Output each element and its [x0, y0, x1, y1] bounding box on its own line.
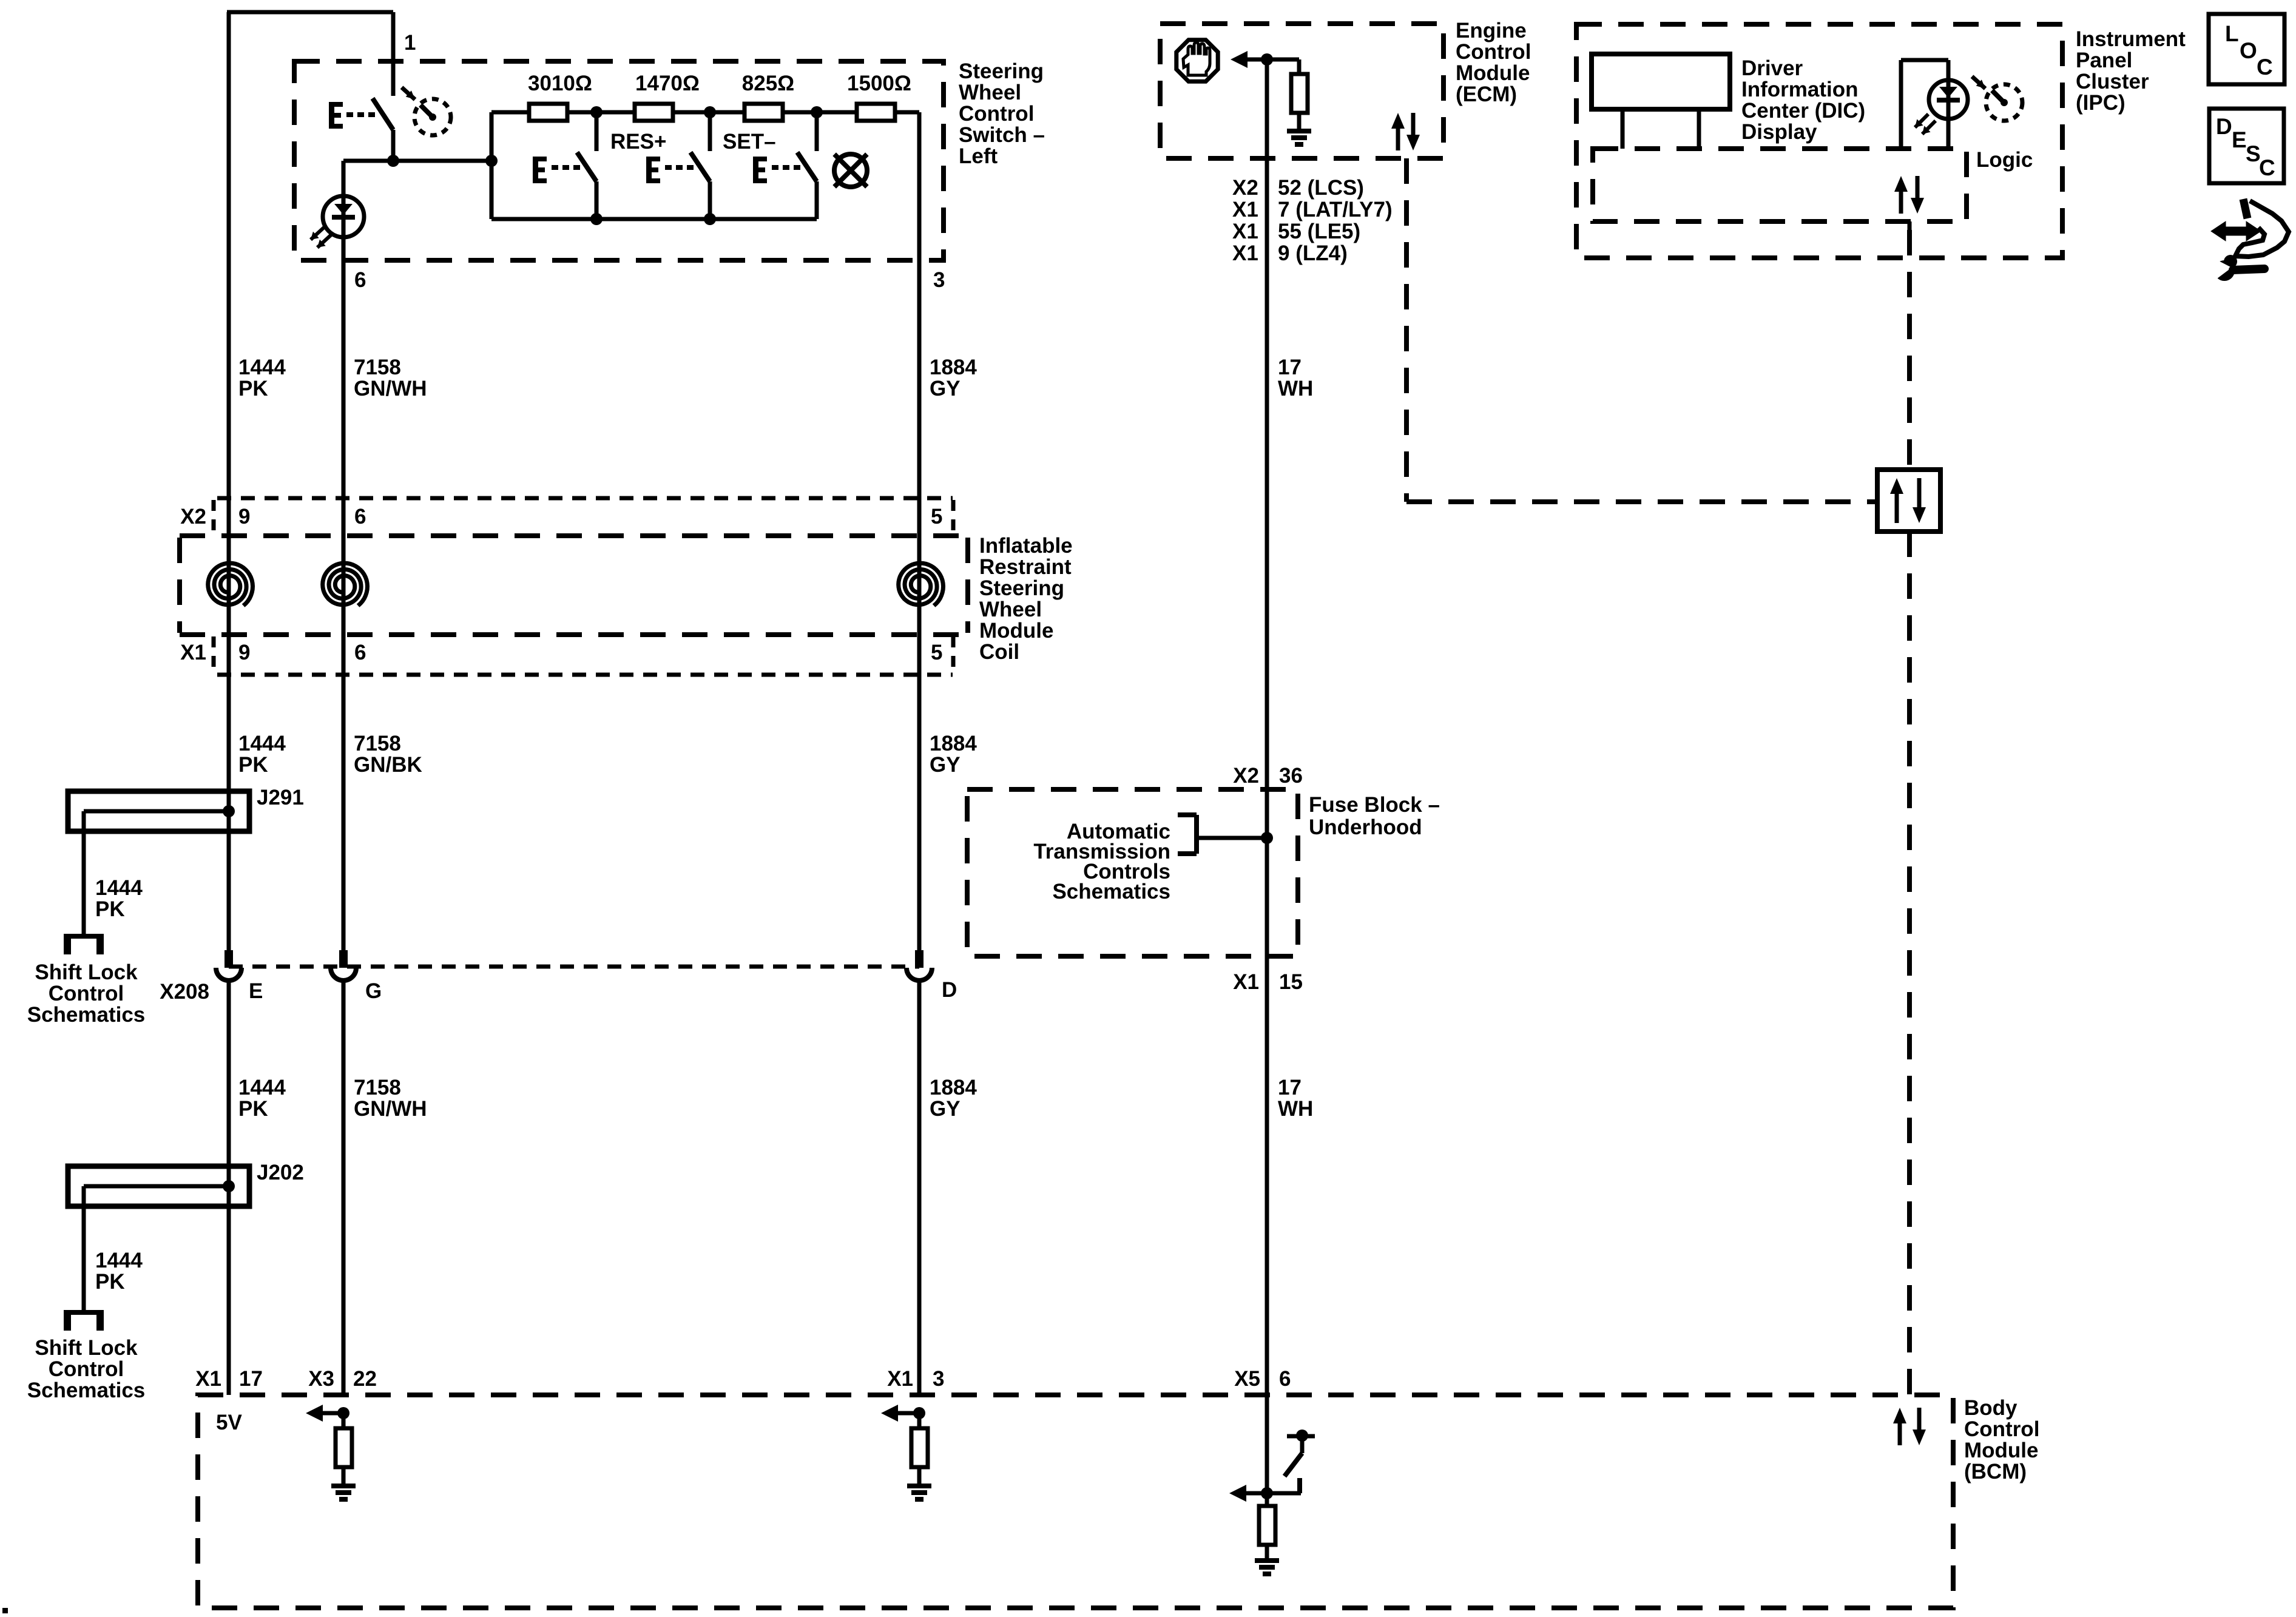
svg-text:Control: Control [959, 102, 1034, 126]
svg-text:Switch –: Switch – [959, 123, 1045, 147]
svg-text:22: 22 [353, 1367, 377, 1391]
svg-text:55 (LE5): 55 (LE5) [1278, 220, 1360, 243]
svg-text:6: 6 [354, 505, 366, 528]
svg-text:Control: Control [1456, 40, 1531, 64]
svg-text:Wheel: Wheel [959, 81, 1021, 104]
svg-text:7 (LAT/LY7): 7 (LAT/LY7) [1278, 198, 1393, 221]
svg-text:C: C [2259, 155, 2275, 180]
svg-text:Control: Control [49, 982, 124, 1005]
svg-text:7158: 7158 [354, 732, 401, 755]
svg-text:PK: PK [95, 897, 125, 921]
svg-text:5: 5 [931, 505, 942, 528]
svg-text:Left: Left [959, 144, 998, 168]
svg-text:Module: Module [979, 619, 1053, 643]
svg-text:Wheel: Wheel [979, 598, 1042, 621]
svg-text:PK: PK [95, 1270, 125, 1294]
svg-text:WH: WH [1278, 1097, 1313, 1121]
svg-text:D: D [942, 978, 957, 1002]
svg-text:1500Ω: 1500Ω [847, 72, 911, 95]
svg-text:17: 17 [1278, 356, 1302, 379]
svg-text:Center (DIC): Center (DIC) [1741, 99, 1865, 123]
svg-text:Inflatable: Inflatable [979, 534, 1073, 558]
svg-text:GN/WH: GN/WH [354, 377, 427, 400]
svg-text:Control: Control [1964, 1417, 2039, 1441]
svg-text:17: 17 [239, 1367, 263, 1391]
svg-text:RES+: RES+ [610, 130, 666, 154]
svg-text:X1: X1 [195, 1367, 221, 1391]
svg-text:Shift Lock: Shift Lock [35, 1336, 138, 1360]
svg-text:Restraint: Restraint [979, 555, 1072, 579]
svg-text:Fuse Block –: Fuse Block – [1309, 793, 1440, 817]
svg-text:1884: 1884 [930, 732, 977, 755]
svg-text:X1: X1 [1232, 241, 1258, 265]
svg-text:Control: Control [49, 1357, 124, 1381]
svg-text:3010Ω: 3010Ω [528, 72, 592, 95]
svg-text:5V: 5V [216, 1411, 242, 1434]
svg-text:1444: 1444 [95, 1249, 143, 1272]
svg-text:7158: 7158 [354, 356, 401, 379]
svg-text:6: 6 [354, 268, 366, 292]
svg-text:(ECM): (ECM) [1456, 83, 1517, 106]
svg-text:X1: X1 [180, 641, 206, 664]
svg-text:15: 15 [1279, 970, 1303, 994]
svg-text:(IPC): (IPC) [2076, 91, 2125, 115]
svg-text:Panel: Panel [2076, 49, 2132, 72]
svg-text:GY: GY [930, 753, 961, 777]
svg-text:1884: 1884 [930, 1076, 977, 1099]
svg-text:Instrument: Instrument [2076, 27, 2186, 51]
svg-text:J202: J202 [257, 1161, 304, 1184]
svg-text:X5: X5 [1234, 1367, 1260, 1391]
svg-text:E: E [2232, 127, 2247, 152]
svg-text:36: 36 [1279, 764, 1303, 788]
svg-text:3: 3 [933, 268, 945, 292]
svg-text:9 (LZ4): 9 (LZ4) [1278, 241, 1348, 265]
svg-text:Driver: Driver [1741, 56, 1803, 80]
svg-text:SET–: SET– [723, 130, 776, 154]
svg-text:17: 17 [1278, 1076, 1302, 1099]
svg-text:1444: 1444 [238, 1076, 286, 1099]
svg-text:Schematics: Schematics [27, 1003, 146, 1027]
svg-text:Module: Module [1456, 61, 1530, 85]
svg-text:Shift Lock: Shift Lock [35, 960, 138, 984]
svg-text:X2: X2 [180, 505, 206, 528]
svg-text:6: 6 [354, 641, 366, 664]
svg-text:X1: X1 [887, 1367, 913, 1391]
svg-text:PK: PK [238, 753, 268, 777]
svg-text:Information: Information [1741, 78, 1858, 101]
svg-text:D: D [2216, 114, 2232, 139]
svg-text:Schematics: Schematics [1052, 880, 1170, 903]
svg-text:PK: PK [238, 377, 268, 400]
svg-text:1: 1 [404, 31, 416, 55]
svg-text:GY: GY [930, 377, 961, 400]
svg-text:6: 6 [1279, 1367, 1291, 1391]
svg-text:3: 3 [933, 1367, 944, 1391]
svg-text:X1: X1 [1232, 198, 1258, 221]
svg-text:O: O [2240, 38, 2257, 63]
svg-text:(BCM): (BCM) [1964, 1460, 2027, 1484]
svg-text:X3: X3 [308, 1367, 334, 1391]
svg-text:X1: X1 [1233, 970, 1259, 994]
svg-text:1444: 1444 [238, 356, 286, 379]
svg-text:X1: X1 [1232, 220, 1258, 243]
svg-text:825Ω: 825Ω [742, 72, 794, 95]
svg-text:7158: 7158 [354, 1076, 401, 1099]
svg-text:S: S [2246, 141, 2261, 166]
svg-text:Cluster: Cluster [2076, 70, 2149, 93]
svg-text:9: 9 [238, 641, 250, 664]
svg-text:PK: PK [238, 1097, 268, 1121]
svg-text:GN/WH: GN/WH [354, 1097, 427, 1121]
svg-text:E: E [249, 979, 263, 1003]
svg-text:1444: 1444 [95, 876, 143, 900]
svg-text:Steering: Steering [979, 576, 1064, 600]
svg-text:1444: 1444 [238, 732, 286, 755]
svg-text:GY: GY [930, 1097, 961, 1121]
svg-text:52 (LCS): 52 (LCS) [1278, 176, 1364, 200]
svg-text:1470Ω: 1470Ω [635, 72, 700, 95]
svg-text:X2: X2 [1233, 764, 1259, 788]
svg-text:Schematics: Schematics [27, 1379, 146, 1402]
svg-text:Steering: Steering [959, 59, 1044, 83]
svg-text:Underhood: Underhood [1309, 815, 1422, 839]
svg-text:C: C [2257, 55, 2273, 79]
svg-text:GN/BK: GN/BK [354, 753, 422, 777]
svg-text:Logic: Logic [1976, 148, 2033, 172]
svg-text:9: 9 [238, 505, 250, 528]
svg-text:G: G [365, 979, 382, 1003]
svg-text:X208: X208 [160, 980, 209, 1004]
svg-text:L: L [2225, 21, 2239, 46]
svg-text:Display: Display [1741, 120, 1817, 144]
svg-text:Engine: Engine [1456, 19, 1527, 42]
svg-text:WH: WH [1278, 377, 1313, 400]
svg-text:5: 5 [931, 641, 942, 664]
svg-text:Module: Module [1964, 1439, 2038, 1462]
svg-text:J291: J291 [257, 786, 304, 809]
svg-text:1884: 1884 [930, 356, 977, 379]
svg-text:Coil: Coil [979, 640, 1019, 664]
svg-text:Body: Body [1964, 1396, 2017, 1420]
svg-text:X2: X2 [1232, 176, 1258, 200]
